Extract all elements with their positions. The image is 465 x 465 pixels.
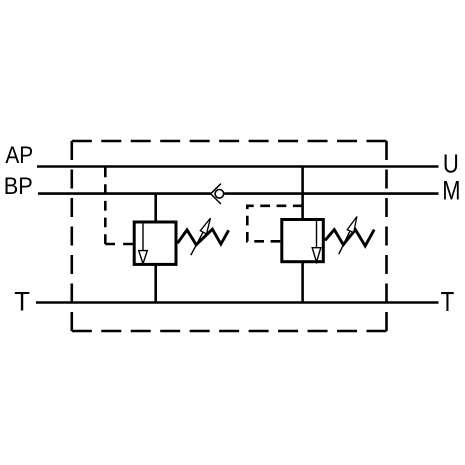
enclosure manifold block left edge [71,141,74,331]
svg-text:T: T [14,286,30,317]
wire AP-U line [37,165,439,168]
node AP label [5,141,33,169]
node BP label [4,172,33,200]
check valve CV1 ball [215,190,224,199]
wire T line [36,301,439,304]
node U label [443,150,459,179]
valve V2 adjustment arrow shaft [339,231,350,254]
node T left label [14,286,30,317]
svg-text:BP: BP [4,172,33,200]
wire valve V2 outlet to T [301,262,304,303]
svg-text:U: U [443,150,459,179]
enclosure manifold block bottom edge [72,330,387,333]
valve V1 pilot line horizontal run [105,243,133,246]
valve V1 flow arrow [142,222,144,251]
wire valve V1 outlet to T [154,265,157,303]
valve V2 spring [325,230,374,246]
svg-text:T: T [441,287,455,318]
check valve CV1 seat [211,184,221,204]
enclosure manifold block top edge [72,140,387,143]
valve V2 flow arrow [316,220,318,248]
wire valve V1 inlet from BP [154,194,157,221]
enclosure manifold block right edge [385,141,388,331]
valve V1 adjustment arrow shaft [191,231,204,255]
wire valve V2 inlet from AP [301,167,304,219]
valve V1 body [134,222,176,264]
valve V1 pilot line from AP [104,168,107,245]
node M label [442,176,460,206]
valve V2 pilot line from inlet [247,206,302,242]
valve V1 spring [178,229,229,245]
wire BP-M line right segment [224,192,438,195]
svg-text:M: M [442,176,460,206]
wire BP-M line left segment [38,192,211,195]
valve V2 flow arrowhead [312,248,321,262]
valve V1 adjustment arrowhead [200,218,210,234]
valve V1 flow arrowhead [139,251,148,264]
valve V2 body [282,220,324,262]
node T right label [441,287,455,318]
svg-text:AP: AP [5,141,33,169]
valve V2 adjustment arrowhead [347,217,357,233]
